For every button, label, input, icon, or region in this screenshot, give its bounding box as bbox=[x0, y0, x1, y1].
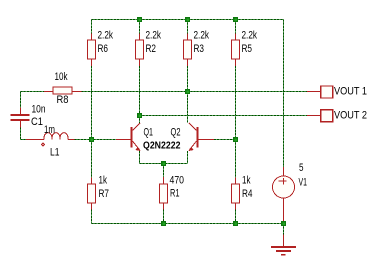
inductor L1 bbox=[26, 124, 75, 159]
wire R6 column down through VOUT1 crossing to base node bbox=[91, 66, 93, 140]
wire Q1 emitter vertical bbox=[139, 151, 141, 164]
resistor R4 bbox=[232, 175, 253, 210]
wire column R2 upper lead bbox=[139, 20, 141, 35]
wire ground drop bbox=[283, 224, 285, 235]
resistor R5 bbox=[232, 30, 258, 67]
resistor R1 bbox=[160, 174, 185, 210]
wire bottom ground bus bbox=[92, 223, 284, 225]
svg-text:R1: R1 bbox=[170, 188, 180, 200]
junction top bus at R3 bbox=[185, 17, 190, 22]
junction bottom bus at V1 and ground bbox=[281, 221, 286, 226]
wire VOUT1 horizontal from R8 to port bbox=[21, 91, 308, 93]
svg-text:R3: R3 bbox=[194, 43, 205, 55]
svg-text:Q2N2222: Q2N2222 bbox=[143, 141, 181, 152]
svg-text:1k: 1k bbox=[242, 175, 251, 187]
wire R4 bottom lead to bus bbox=[235, 210, 237, 224]
svg-text:R2: R2 bbox=[146, 43, 157, 55]
junction emitter bus at R1 bbox=[161, 161, 166, 166]
svg-text:L1: L1 bbox=[50, 147, 60, 159]
wire R1 bottom lead to bus bbox=[163, 210, 165, 224]
wire right bus down to V1 bbox=[283, 20, 285, 168]
wire column R5 upper lead bbox=[235, 20, 237, 35]
svg-text:Q2: Q2 bbox=[171, 127, 181, 139]
svg-text:10n: 10n bbox=[32, 103, 46, 115]
wire VOUT2 horizontal bbox=[140, 115, 308, 117]
junction VOUT1 at R3 column bbox=[185, 89, 190, 94]
wire column R6 upper lead bbox=[91, 20, 93, 35]
voltage source V1 bbox=[273, 162, 308, 222]
wire Q2 base to R5 column bbox=[214, 139, 236, 141]
wire Q1 collector vertical bbox=[139, 116, 141, 124]
svg-text:R8: R8 bbox=[57, 94, 69, 106]
wire emitter bus bbox=[140, 163, 188, 165]
transistor Q1 bbox=[116, 123, 153, 151]
wire R7 bottom lead to bus bbox=[91, 210, 93, 224]
resistor R3 bbox=[184, 30, 210, 67]
resistor R8 bbox=[44, 71, 82, 106]
junction top bus at R2 bbox=[137, 17, 142, 22]
svg-text:Q1: Q1 bbox=[144, 127, 154, 139]
wire left input column lower segment bbox=[20, 128, 22, 140]
wire left input column upper segment bbox=[20, 92, 22, 108]
svg-text:R7: R7 bbox=[99, 188, 110, 200]
port VOUT2 bbox=[307, 109, 367, 121]
junction Q2 base at R5-R4 column bbox=[233, 137, 238, 142]
svg-text:C1: C1 bbox=[31, 116, 43, 128]
resistor R2 bbox=[136, 30, 162, 67]
wire R2 column down to VOUT2 node bbox=[139, 66, 141, 123]
svg-text:1k: 1k bbox=[99, 175, 108, 187]
wire R5 column down to Q2 base node bbox=[235, 66, 237, 140]
wire top supply bus bbox=[92, 19, 284, 21]
junction bottom bus at R1 bbox=[161, 221, 166, 226]
ground bbox=[271, 235, 296, 256]
wire base wire from L1 to Q1 base bbox=[75, 139, 117, 141]
junction base node at R6-R7 column bbox=[89, 137, 94, 142]
svg-text:5: 5 bbox=[299, 162, 304, 174]
wire R1 top lead bbox=[163, 164, 165, 178]
junction bottom bus at R4 bbox=[233, 221, 238, 226]
junction top bus at R5 bbox=[233, 17, 238, 22]
svg-text:2.2k: 2.2k bbox=[98, 30, 114, 42]
wire V1 bottom to ground bus bbox=[283, 221, 285, 224]
resistor R7 bbox=[88, 175, 110, 210]
svg-text:R6: R6 bbox=[98, 43, 109, 55]
svg-text:VOUT 2: VOUT 2 bbox=[334, 109, 367, 121]
svg-text:R4: R4 bbox=[242, 188, 253, 200]
svg-text:2.2k: 2.2k bbox=[242, 30, 258, 42]
svg-text:470: 470 bbox=[170, 174, 185, 186]
svg-text:V1: V1 bbox=[299, 177, 308, 189]
svg-text:VOUT 1: VOUT 1 bbox=[334, 85, 367, 97]
wire Q2 emitter vertical bbox=[187, 151, 189, 164]
wire R7 column base node to box bbox=[91, 140, 93, 178]
svg-text:2.2k: 2.2k bbox=[194, 30, 210, 42]
svg-text:10k: 10k bbox=[55, 71, 68, 83]
resistor R6 bbox=[88, 30, 114, 67]
svg-text:2.2k: 2.2k bbox=[146, 30, 162, 42]
transistor Q2 bbox=[171, 123, 215, 151]
junction VOUT2 at R2 column bbox=[137, 113, 142, 118]
svg-text:1m: 1m bbox=[44, 124, 55, 136]
svg-text:R5: R5 bbox=[242, 43, 253, 55]
wire R5 column to R4 top bbox=[235, 140, 237, 178]
wire R3 column down through VOUT1 node to Q2 collector bbox=[187, 66, 189, 123]
port VOUT1 bbox=[307, 85, 367, 98]
capacitor C1 bbox=[11, 103, 46, 128]
wire column R3 upper lead bbox=[187, 20, 189, 35]
wire base node horizontal left of L1 bbox=[21, 139, 28, 141]
